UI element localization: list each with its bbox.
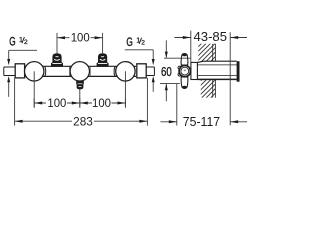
svg-text:60: 60 [161,65,172,79]
svg-text:2: 2 [24,39,28,46]
svg-text:2: 2 [141,40,145,47]
svg-text:43-85: 43-85 [194,29,228,44]
svg-text:100: 100 [47,97,66,110]
svg-text:G: G [126,35,132,49]
svg-text:283: 283 [73,115,93,128]
svg-text:100: 100 [92,97,111,110]
svg-text:100: 100 [71,32,90,45]
svg-text:75-117: 75-117 [183,114,220,129]
svg-text:G: G [9,35,15,49]
